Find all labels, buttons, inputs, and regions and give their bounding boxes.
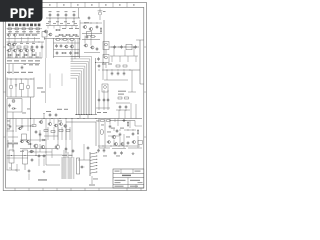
wire: [28, 151, 52, 153]
capacitor C43: [114, 151, 117, 155]
capacitor C42: [127, 141, 130, 145]
junction: [106, 69, 109, 72]
capacitor C26: [39, 130, 42, 142]
capacitor C49: [132, 132, 135, 136]
capacitor C7: [31, 45, 34, 49]
transistor Q28: [26, 140, 29, 143]
transistor Q22: [26, 79, 30, 97]
wire: [117, 119, 119, 121]
wire: [8, 52, 40, 58]
wire: [96, 107, 110, 109]
wire: [12, 119, 14, 153]
wire: [83, 152, 85, 160]
junction: [7, 145, 10, 148]
PDF badge letter P: [11, 8, 18, 18]
capacitor C35: [107, 98, 110, 102]
capacitor C6: [86, 35, 89, 39]
transistor Q27: [20, 140, 23, 143]
diode D7: [42, 139, 47, 141]
wire: [8, 136, 18, 138]
wire: [91, 176, 93, 184]
capacitor C11: [60, 44, 63, 48]
transistor Q15: [70, 45, 74, 48]
wire: [104, 79, 128, 81]
capacitor C14: [96, 47, 99, 51]
resistor R15: [10, 46, 14, 48]
title block: [113, 169, 144, 188]
wire: [123, 134, 125, 148]
resistor R4: [72, 34, 78, 35]
capacitor C39: [119, 132, 122, 136]
capacitor C17: [134, 45, 137, 49]
wire bus W1: [71, 57, 92, 115]
wire: [7, 57, 43, 59]
wire: [39, 144, 41, 152]
transistor Q31: [29, 150, 33, 153]
capacitor C9: [41, 45, 44, 49]
wire: [79, 115, 81, 119]
wire: [46, 164, 60, 166]
wire: [30, 119, 32, 149]
capacitor C41: [103, 148, 106, 152]
value labels: [93, 178, 98, 181]
resistor R31: [118, 97, 122, 99]
PDF badge letter D: [19, 8, 26, 18]
wire: [20, 139, 44, 141]
value labels: [46, 22, 49, 25]
value 10k/5W: [29, 64, 33, 65]
wire: [129, 121, 131, 129]
resistor R19: [62, 39, 68, 40]
wire: [95, 58, 97, 115]
motor M1: [12, 100, 15, 103]
wire: [102, 62, 104, 80]
transistor Q18: [103, 42, 109, 50]
value labels: [118, 91, 126, 92]
wire: [110, 55, 138, 57]
resistor R2: [58, 34, 64, 35]
resistor R5: [100, 27, 101, 33]
label box: [77, 158, 80, 174]
junction: [10, 154, 13, 157]
resistor R36: [137, 129, 138, 135]
wire: [118, 110, 120, 119]
wire: [83, 144, 85, 152]
wire: [45, 119, 47, 129]
wire: [7, 130, 15, 132]
wire: [12, 48, 26, 52]
capacitor C16: [120, 45, 123, 49]
diode D6: [12, 107, 17, 109]
capacitor C50: [88, 16, 91, 20]
wire: [99, 147, 110, 149]
wire: [139, 40, 141, 84]
wire: [44, 135, 58, 137]
value labels: [8, 30, 12, 33]
wire: [95, 122, 97, 146]
capacitor C51: [35, 130, 38, 134]
transistor Q20: [102, 84, 108, 92]
value labels: [62, 27, 66, 30]
wire: [134, 121, 136, 127]
wire: [10, 119, 34, 125]
wire: [103, 20, 105, 58]
transistor Q38: [18, 127, 21, 130]
wire: [7, 78, 34, 80]
resistor R12: [19, 34, 25, 35]
transistor Q21: [9, 79, 13, 97]
wire: [7, 41, 45, 43]
value labels: [111, 128, 115, 129]
wire: [6, 119, 8, 171]
transistor Q14: [64, 45, 68, 48]
value label: [37, 88, 43, 89]
part number text: [8, 24, 40, 27]
wire: [10, 30, 38, 34]
transistor Q39: [107, 141, 111, 144]
capacitor C15: [113, 45, 116, 49]
junction: [30, 118, 97, 119]
transistor Q7: [7, 43, 11, 46]
capacitor C20: [123, 71, 126, 75]
wire: [41, 42, 43, 58]
wire: [30, 97, 32, 119]
transistor Q17: [90, 46, 94, 49]
transistor Q4: [89, 27, 93, 30]
capacitor C23: [43, 113, 46, 119]
wire: [7, 28, 43, 30]
capacitor C28: [38, 154, 41, 158]
wire: [46, 154, 62, 156]
wire: [7, 38, 41, 40]
resistor R25: [123, 65, 127, 67]
wire: [61, 74, 63, 87]
transistor Q30: [41, 145, 45, 148]
wire: [140, 83, 144, 85]
junction: [49, 17, 52, 20]
wire: [116, 109, 130, 111]
capacitor C30: [65, 147, 68, 151]
wire: [96, 62, 105, 64]
value labels: [57, 109, 62, 110]
capacitor C10: [55, 44, 58, 48]
resistor R1: [55, 29, 61, 30]
wire: [48, 26, 76, 29]
resistor R6: [90, 36, 96, 37]
wire: [54, 42, 80, 44]
crystal Y1: [98, 9, 106, 21]
value 20k labels: [7, 72, 12, 73]
resistor R26: [20, 79, 24, 97]
wire: [46, 17, 80, 19]
capacitor C48: [109, 124, 112, 128]
capacitor C53: [87, 146, 90, 150]
diode D3: [24, 54, 29, 56]
capacitor C54: [97, 57, 100, 61]
capacitor C33: [98, 98, 101, 102]
transistor Q2: [48, 33, 52, 36]
value labels: [55, 35, 59, 38]
resistor R9: [22, 28, 25, 30]
wire: [7, 118, 143, 120]
transistor Q5: [7, 34, 11, 37]
wire: [20, 148, 32, 150]
capacitor C32: [80, 166, 85, 169]
capacitor C34: [103, 98, 106, 102]
resistor R30: [66, 130, 70, 132]
junction: [76, 113, 92, 116]
wire: [46, 25, 78, 27]
value 20k labels: [7, 60, 12, 61]
diode D2: [16, 54, 21, 56]
transistor Q19: [103, 55, 109, 63]
wire: [136, 39, 144, 41]
transistor Q10: [13, 49, 17, 52]
relay RL2: [22, 134, 27, 140]
connector J2: [90, 152, 97, 176]
wire: [7, 169, 21, 171]
wire: [109, 119, 111, 125]
resistor R14: [32, 34, 38, 35]
wire: [82, 39, 100, 41]
capacitor C8: [36, 45, 39, 49]
resistor R7: [8, 28, 11, 30]
transistor Q32: [55, 145, 60, 149]
wire: [38, 159, 40, 167]
wire: [6, 78, 8, 98]
transistor Q37: [39, 121, 43, 124]
ground GND2: [132, 152, 135, 155]
wire: [7, 157, 29, 159]
transistor Q29: [33, 144, 38, 148]
wire: [98, 145, 140, 147]
transistor Q24: [54, 124, 58, 127]
resistor R23: [126, 44, 132, 49]
capacitor C21: [21, 64, 26, 70]
value labels: [103, 155, 107, 158]
capacitor C25: [55, 113, 58, 117]
wire: [6, 99, 8, 113]
transistor Q11: [19, 49, 23, 52]
diode D8: [28, 143, 33, 145]
capacitor C37: [125, 105, 128, 109]
wire: [137, 136, 139, 148]
capacitor C4: [73, 11, 76, 17]
transistor Q35: [114, 143, 118, 146]
transistor Q9: [7, 49, 11, 52]
value labels: [97, 112, 101, 113]
value labels: [22, 112, 26, 115]
wire: [80, 22, 102, 24]
wire: [105, 50, 107, 55]
wire: [53, 38, 55, 58]
wire: [35, 148, 37, 155]
wire: [79, 38, 81, 58]
value label: [46, 110, 51, 113]
junction: [127, 129, 130, 132]
wire: [106, 70, 108, 80]
wire: [16, 125, 34, 127]
wire: [75, 114, 97, 116]
resistor R11: [36, 28, 39, 30]
wire: [6, 112, 8, 119]
wire: [63, 150, 65, 158]
wire: [102, 69, 140, 71]
resistor R24: [116, 65, 120, 67]
capacitor C27: [28, 169, 31, 180]
capacitor C5: [96, 25, 99, 29]
capacitor C12: [56, 51, 59, 55]
capacitor C46: [21, 124, 24, 128]
wire: [128, 147, 142, 149]
wire: [128, 91, 136, 93]
transistor Q3: [83, 25, 87, 28]
wire: [82, 33, 102, 35]
wire: [7, 140, 9, 148]
wire: [7, 63, 41, 65]
resistor R8: [15, 28, 18, 30]
resistor R28: [51, 131, 55, 133]
resistor R16: [17, 46, 21, 48]
junction: [10, 78, 13, 81]
transistor Q36: [120, 143, 124, 146]
resistor R27: [44, 130, 48, 132]
wire: [113, 140, 115, 147]
value label: [58, 120, 62, 123]
wire: [98, 90, 100, 110]
resistor R18: [55, 39, 61, 40]
capacitor C19: [117, 71, 120, 75]
relay RL3: [9, 150, 14, 170]
relay RL4: [23, 150, 28, 170]
wire: [84, 52, 100, 54]
resistor R32: [125, 97, 129, 99]
wire: [16, 164, 18, 172]
wire: [67, 39, 69, 44]
wire: [8, 64, 10, 74]
wire: [41, 119, 43, 125]
PDF badge letter F: [28, 8, 33, 18]
resistor R33: [138, 140, 142, 144]
wire: [7, 33, 41, 35]
wire: [54, 49, 80, 51]
transistor Q25: [59, 123, 63, 126]
wire: [45, 58, 47, 103]
junction: [9, 167, 12, 170]
capacitor C55: [98, 64, 101, 68]
transistor Q8: [12, 43, 16, 46]
wire: [49, 18, 51, 26]
value labels: [8, 42, 11, 45]
junction: [98, 69, 101, 72]
transistor Q23: [48, 122, 52, 125]
junction: [102, 145, 105, 148]
wire: [135, 104, 137, 119]
value labels: [20, 150, 24, 153]
wire: [7, 143, 19, 145]
resistor R37: [87, 32, 92, 36]
connector J1: [61, 158, 74, 179]
capacitor C18: [111, 71, 114, 75]
wire: [45, 128, 47, 155]
wire: [71, 40, 73, 62]
wire: [9, 37, 35, 42]
wire: [78, 8, 80, 18]
value labels: [8, 143, 12, 144]
value label: [84, 21, 89, 24]
wire: [98, 119, 100, 149]
wire: [111, 56, 113, 62]
transistor Q33: [112, 135, 116, 138]
wire: [124, 129, 136, 131]
wire: [112, 148, 126, 150]
wire: [49, 74, 51, 89]
wire: [79, 20, 81, 40]
lamp L1: [100, 129, 103, 134]
resistor R34: [32, 125, 36, 127]
wire: [135, 125, 142, 127]
label RL-2B: [38, 179, 47, 180]
transistor Q34: [132, 141, 136, 144]
capacitor C13: [69, 51, 72, 55]
junction: [84, 22, 87, 25]
junction: [113, 129, 116, 132]
wire: [66, 121, 96, 123]
capacitor C31: [72, 149, 75, 153]
transistor Q13: [31, 49, 35, 52]
capacitor C24: [49, 113, 52, 117]
value label: [89, 185, 95, 186]
wire: [48, 127, 70, 140]
wire: [32, 148, 58, 150]
capacitor C2: [57, 11, 60, 17]
capacitor C45: [9, 124, 12, 128]
capacitor C44: [120, 151, 123, 155]
wire: [44, 38, 80, 40]
transistor Q16: [84, 44, 88, 47]
wire: [116, 102, 130, 104]
transistor Q26: [63, 125, 67, 128]
resistor R38: [101, 120, 105, 122]
PDF badge: [0, 0, 43, 22]
wire: [15, 124, 17, 132]
junction: [8, 41, 11, 44]
diode D4: [32, 54, 37, 56]
junction: [119, 109, 122, 112]
junction: [111, 46, 114, 49]
wire: [7, 96, 34, 98]
wire: [54, 56, 80, 58]
value labels: [8, 56, 11, 59]
wire: [45, 39, 47, 59]
wire: [98, 119, 100, 123]
transistor Q6: [13, 34, 17, 37]
capacitor C38: [122, 119, 127, 122]
value labels: [7, 120, 10, 123]
relay RL1: [42, 32, 47, 41]
capacitor C40: [97, 148, 100, 152]
resistor R13: [25, 34, 31, 35]
wire: [109, 46, 139, 48]
resistor R35: [127, 121, 128, 127]
resistor R21: [61, 52, 67, 53]
diode D5: [15, 79, 17, 97]
capacitor C29: [43, 154, 46, 158]
resistor R20: [69, 39, 75, 40]
resistor R17: [24, 46, 28, 48]
value labels: [62, 155, 67, 156]
wire: [7, 155, 47, 157]
